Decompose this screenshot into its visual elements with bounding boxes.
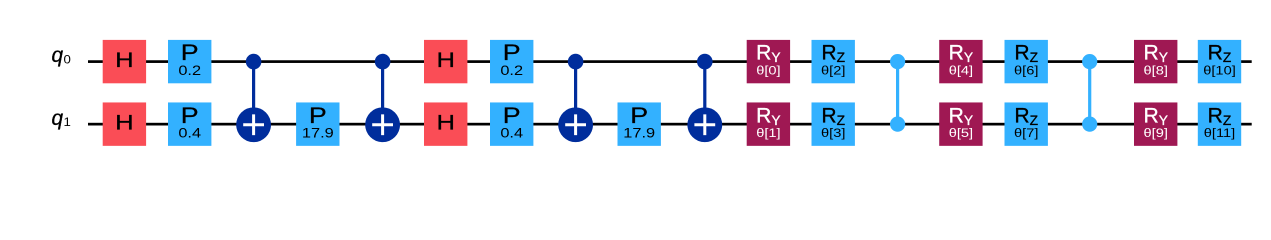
svg-text:H: H bbox=[115, 49, 133, 73]
svg-text:0.2: 0.2 bbox=[500, 63, 523, 79]
svg-text:θ[3]: θ[3] bbox=[821, 126, 845, 139]
svg-text:P: P bbox=[630, 104, 648, 128]
svg-text:H: H bbox=[436, 49, 454, 73]
svg-text:θ[6]: θ[6] bbox=[1014, 64, 1038, 77]
svg-text:17.9: 17.9 bbox=[623, 126, 655, 142]
svg-text:P: P bbox=[503, 41, 521, 65]
svg-text:P: P bbox=[503, 104, 521, 128]
svg-text:0: 0 bbox=[64, 53, 71, 66]
svg-text:P: P bbox=[309, 104, 327, 128]
svg-text:17.9: 17.9 bbox=[302, 126, 334, 142]
svg-text:θ[1]: θ[1] bbox=[756, 126, 780, 139]
svg-text:θ[8]: θ[8] bbox=[1143, 64, 1167, 77]
svg-text:θ[9]: θ[9] bbox=[1143, 126, 1167, 139]
svg-text:P: P bbox=[181, 41, 199, 65]
svg-text:θ[11]: θ[11] bbox=[1204, 126, 1235, 139]
svg-text:0.4: 0.4 bbox=[178, 126, 201, 142]
svg-text:θ[4]: θ[4] bbox=[949, 64, 973, 77]
svg-text:0.2: 0.2 bbox=[178, 63, 201, 79]
svg-text:P: P bbox=[181, 104, 199, 128]
svg-text:q: q bbox=[52, 44, 64, 67]
svg-text:H: H bbox=[115, 111, 133, 135]
svg-text:θ[7]: θ[7] bbox=[1014, 126, 1038, 139]
svg-text:θ[5]: θ[5] bbox=[949, 126, 973, 139]
svg-text:q: q bbox=[52, 107, 64, 130]
svg-text:H: H bbox=[436, 111, 454, 135]
svg-text:θ[10]: θ[10] bbox=[1203, 64, 1236, 77]
svg-text:θ[2]: θ[2] bbox=[821, 64, 845, 77]
svg-text:θ[0]: θ[0] bbox=[756, 64, 780, 77]
svg-text:0.4: 0.4 bbox=[500, 126, 523, 142]
svg-text:1: 1 bbox=[64, 116, 71, 129]
